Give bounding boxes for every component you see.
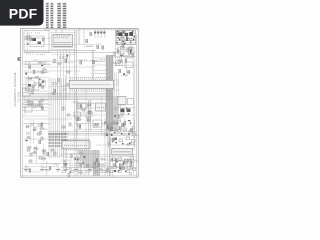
svg-text:PDF: PDF bbox=[9, 5, 38, 21]
svg-text:NO. 3530: NO. 3530 bbox=[17, 91, 20, 102]
